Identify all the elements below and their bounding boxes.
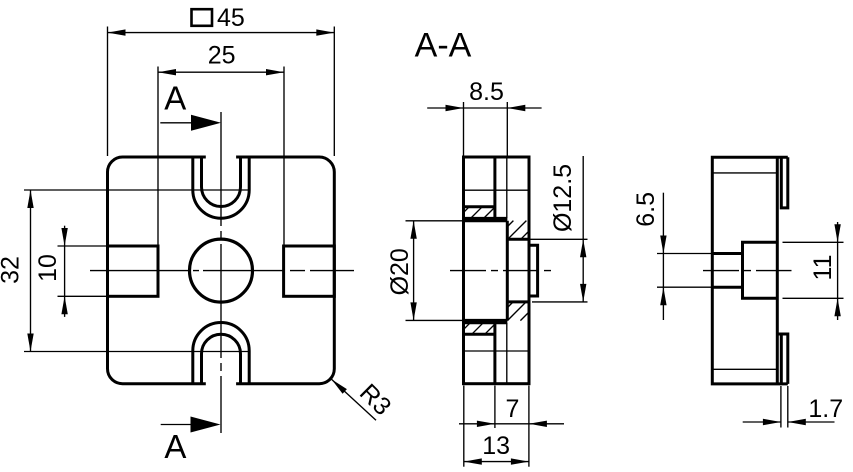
- boss: [743, 242, 778, 298]
- dim 1.7 lines: [743, 421, 781, 423]
- arrowheads D20: [410, 221, 416, 239]
- square symbol of dim 45: [192, 9, 213, 26]
- arrowheads 11 (outside): [834, 224, 840, 242]
- dim 6.5 line: [662, 193, 664, 320]
- hatching top-left: [464, 207, 470, 213]
- slot tangent line top: [464, 189, 530, 191]
- dim D12.5 extension lines: [531, 238, 588, 240]
- svg-text:A: A: [164, 80, 186, 117]
- top outer slot: [193, 157, 249, 218]
- boss profile: [529, 245, 538, 296]
- dim 13 extension lines: [463, 386, 465, 467]
- dim 11 line: [837, 222, 839, 320]
- plate outline: [108, 157, 335, 384]
- section arrow bottom: [191, 417, 221, 433]
- inner vertical top (slot step): [493, 157, 496, 218]
- dim 8.5 line: [427, 107, 541, 109]
- arrowheads 13: [464, 458, 482, 464]
- counterbore bottom face: [506, 221, 509, 321]
- svg-text:13: 13: [482, 432, 510, 460]
- hole wall bottom: [507, 300, 529, 303]
- dim 32 extension lines: [24, 189, 250, 191]
- dim 11 extension lines: [783, 241, 844, 243]
- dim 10 line: [64, 226, 66, 317]
- top inner slot: [202, 157, 241, 207]
- top edge slot-mouth gap: [206, 155, 236, 159]
- right face: [776, 157, 779, 384]
- dim D20 extension lines: [406, 220, 463, 222]
- outer slot floor bottom: [464, 321, 508, 324]
- dim 8.5 extension lines: [463, 102, 465, 156]
- section arrow top: [191, 115, 221, 131]
- central hole: [190, 239, 253, 302]
- svg-text:Ø12.5: Ø12.5: [549, 164, 577, 232]
- arrowheads dim 32: [27, 190, 33, 208]
- bottom lip: [781, 334, 788, 384]
- svg-text:A: A: [164, 428, 186, 465]
- arrowheads 7 (outside): [477, 421, 495, 427]
- centerline vertical (section cut line): [220, 112, 222, 433]
- svg-text:25: 25: [208, 42, 236, 70]
- counterbore wall bottom: [464, 319, 508, 322]
- inner slot floor top: [464, 205, 495, 208]
- narrow slot edge bottom: [506, 323, 508, 384]
- bottom outer slot: [193, 323, 249, 384]
- bottom lip top close: [777, 333, 781, 336]
- thin edge lines: [712, 172, 777, 174]
- arrowheads D12.5: [580, 239, 586, 257]
- slot far lines: [712, 252, 742, 255]
- bottom inner slot: [202, 334, 241, 384]
- svg-text:11: 11: [809, 255, 837, 281]
- svg-text:32: 32: [0, 256, 25, 284]
- dim 13 line: [464, 461, 529, 463]
- centerline horizontal: [90, 270, 354, 272]
- dim 45 line: [108, 32, 335, 34]
- dim 25 line: [158, 71, 284, 73]
- counterbore wall top: [464, 219, 508, 222]
- hole wall top: [507, 238, 529, 241]
- right notch: [284, 246, 335, 296]
- outer slot floor top: [464, 217, 508, 220]
- dim 25 extension lines: [157, 67, 159, 247]
- arrowheads dim 10 (outside): [61, 228, 67, 246]
- top lip: [781, 157, 788, 208]
- section outline: [464, 157, 530, 384]
- section arrow line top: [160, 122, 200, 124]
- section arrow line bottom: [161, 424, 200, 426]
- slot tangent line bottom: [464, 350, 530, 352]
- svg-text:1.7: 1.7: [808, 395, 843, 423]
- outline: [712, 157, 788, 384]
- dim 10 extension lines: [58, 245, 109, 247]
- svg-text:8.5: 8.5: [469, 78, 504, 106]
- dim 7 line: [459, 423, 564, 425]
- dim 1.7 extension lines: [780, 386, 782, 428]
- dim D12.5 line: [582, 156, 584, 302]
- dim 45 extension lines: [107, 27, 109, 157]
- svg-text:Ø20: Ø20: [386, 248, 414, 295]
- svg-text:6.5: 6.5: [632, 192, 660, 227]
- hatching bottom-left: [464, 323, 471, 330]
- arrowheads 8.5 (outside): [446, 105, 464, 111]
- section centerline: [450, 270, 551, 272]
- dim 6.5 extension lines: [657, 253, 713, 255]
- hatching top-right: [507, 221, 513, 227]
- R3 arrowhead: [332, 379, 347, 394]
- dim D20 line: [413, 221, 415, 321]
- centerline right view: [703, 270, 792, 272]
- arrowheads 6.5 (outside): [660, 236, 666, 254]
- left notch: [108, 246, 159, 296]
- inner slot floor bottom: [464, 333, 495, 336]
- R3 leader line: [332, 379, 377, 420]
- arrowheads 1.7 (outside): [763, 419, 781, 425]
- narrow slot edge top: [506, 157, 508, 218]
- arrowheads dim 45: [108, 29, 126, 35]
- inner vertical bottom: [493, 323, 496, 384]
- svg-text:45: 45: [217, 4, 245, 32]
- svg-text:10: 10: [34, 254, 62, 282]
- dim 32 line: [30, 190, 32, 352]
- dim 7 extension line: [494, 386, 496, 429]
- svg-text:7: 7: [506, 395, 520, 423]
- svg-text:A-A: A-A: [415, 27, 472, 65]
- hatching bottom-right: [507, 302, 513, 308]
- arrowheads dim 25: [158, 69, 176, 75]
